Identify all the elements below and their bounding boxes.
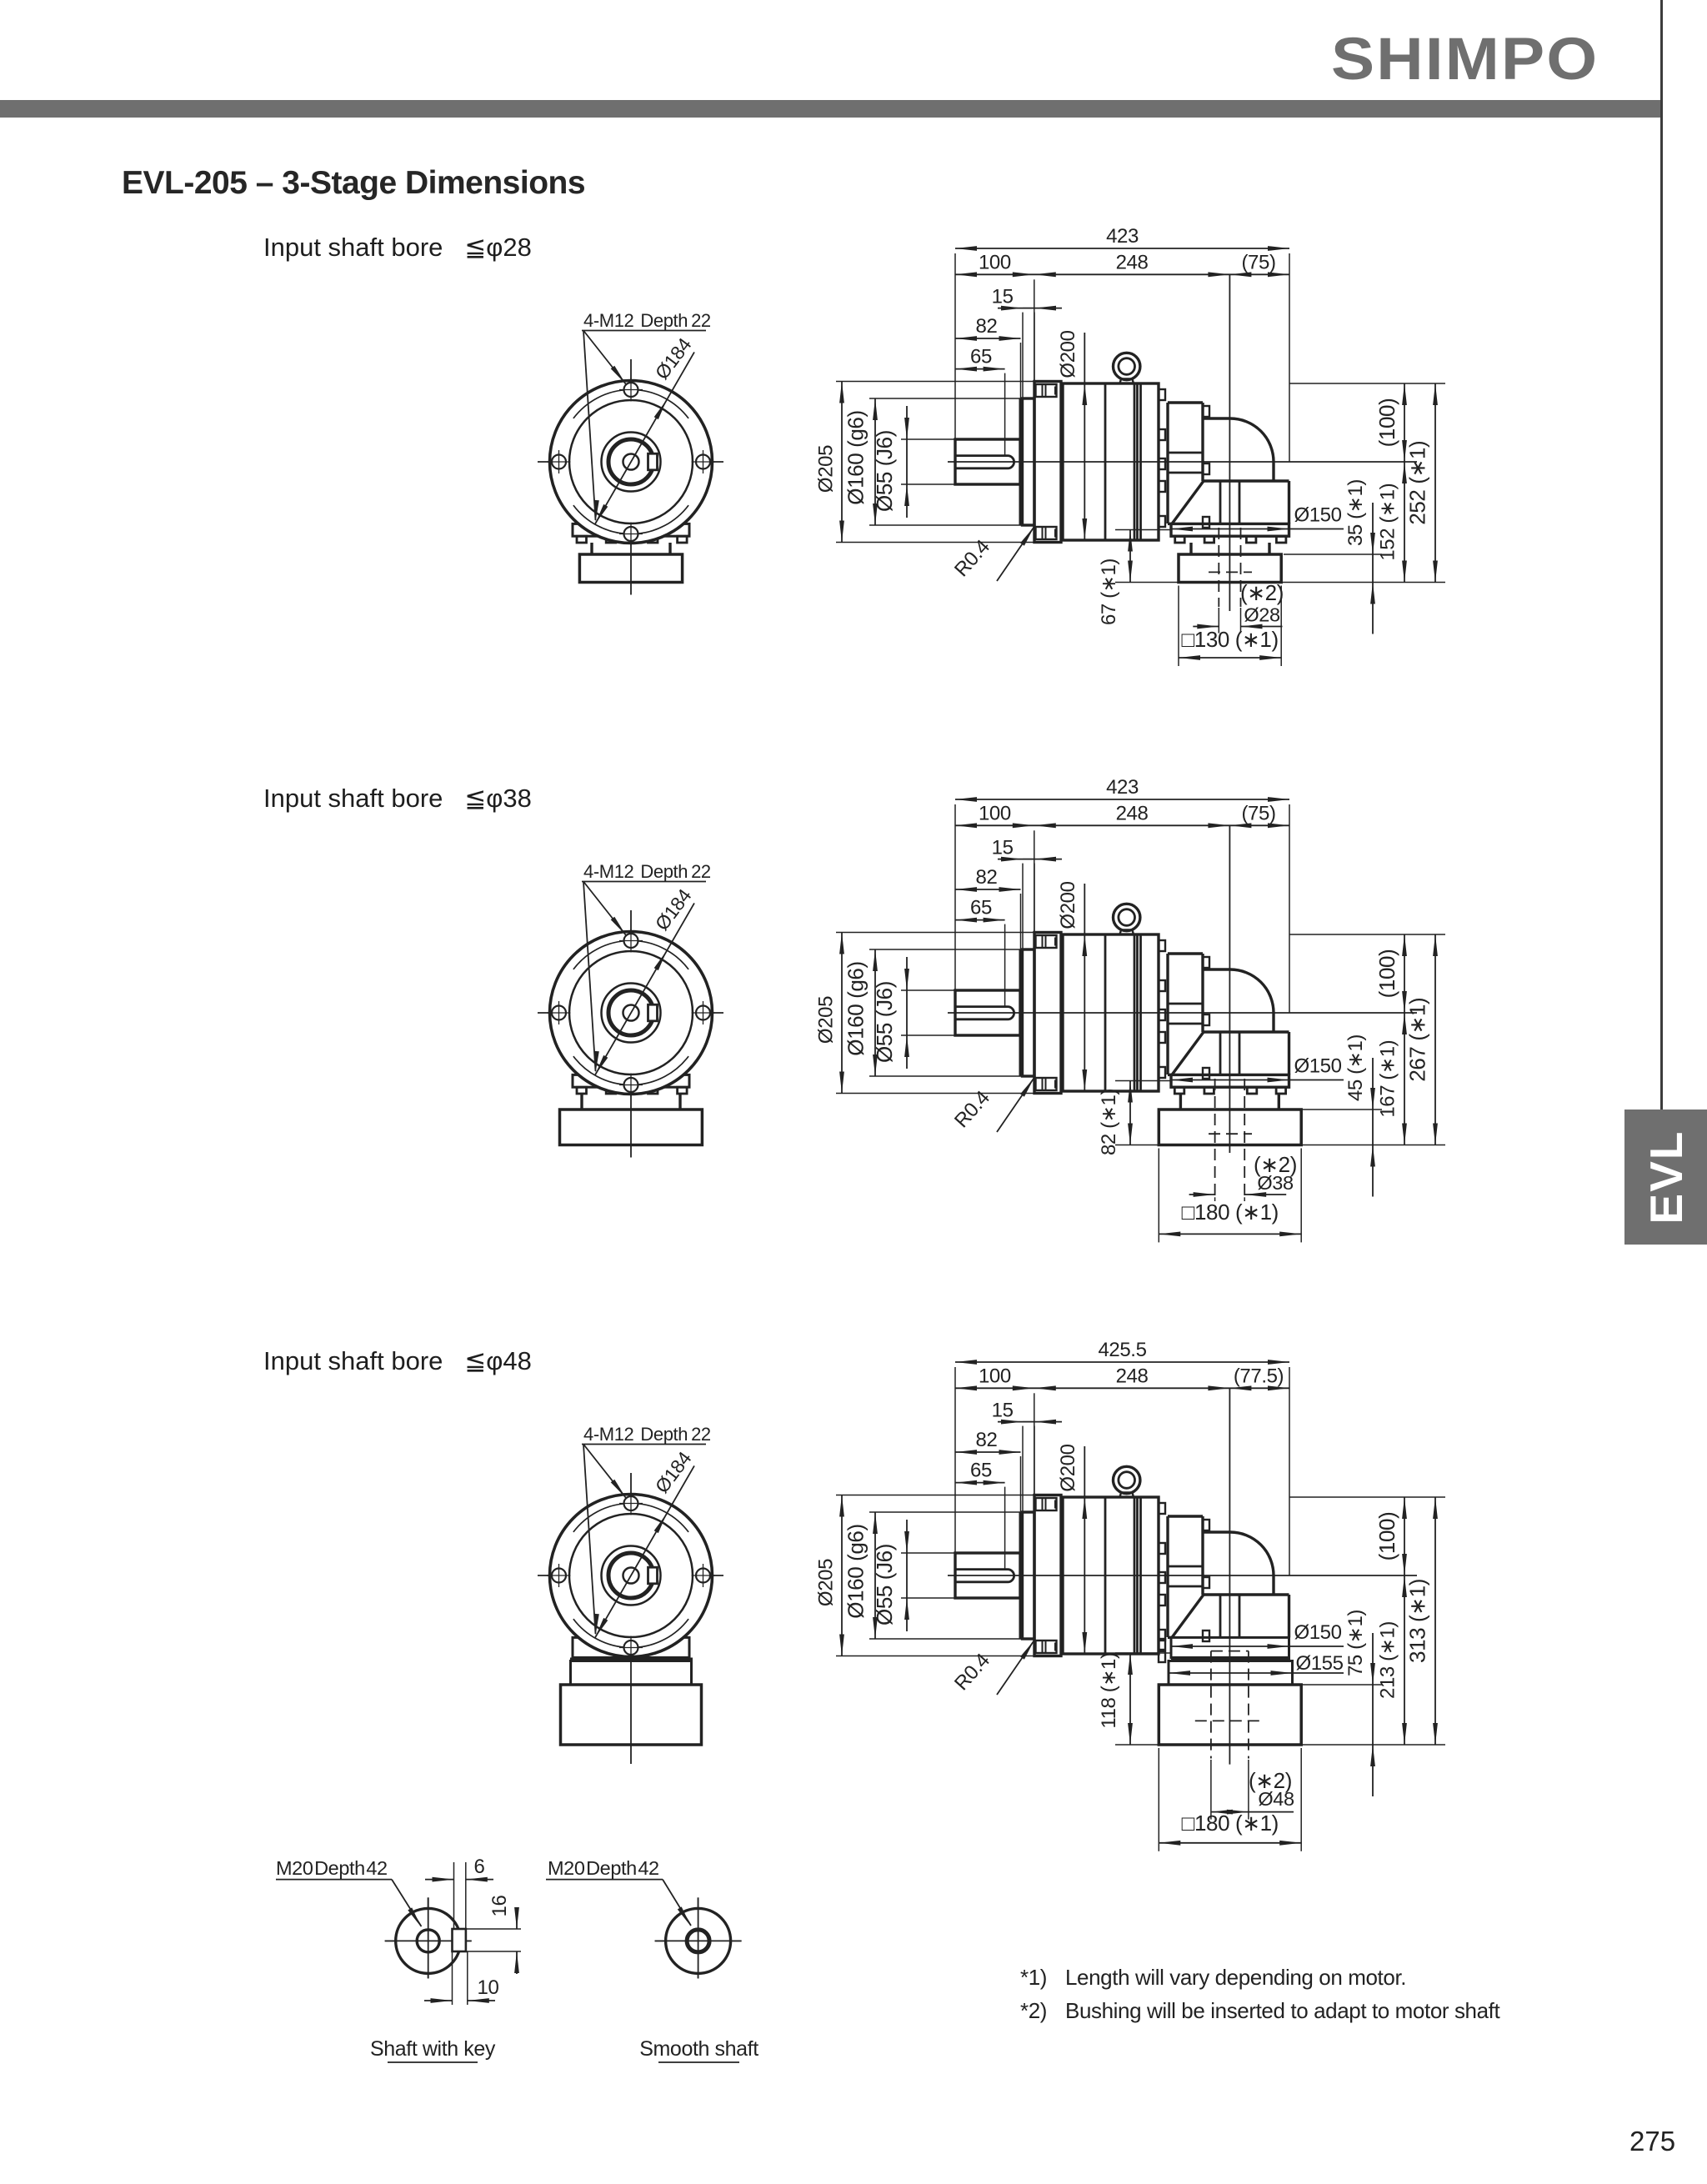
svg-text:248: 248 <box>1116 251 1149 273</box>
svg-text:Bushing will be inserted to ad: Bushing will be inserted to adapt to mot… <box>1065 1998 1501 2023</box>
svg-text:Ø205: Ø205 <box>815 996 838 1044</box>
svg-text:M20 Depth 42: M20 Depth 42 <box>548 1857 659 1879</box>
svg-text:Ø160 (g6): Ø160 (g6) <box>843 961 869 1055</box>
svg-text:Smooth shaft: Smooth shaft <box>639 2037 758 2061</box>
svg-text:4-M12 Depth 22: 4-M12 Depth 22 <box>583 861 711 882</box>
svg-text:15: 15 <box>992 837 1014 859</box>
svg-text:□130 (∗1): □130 (∗1) <box>1181 627 1278 652</box>
svg-text:118 (∗1): 118 (∗1) <box>1098 1652 1120 1728</box>
svg-text:□180 (∗1): □180 (∗1) <box>1182 1200 1279 1225</box>
svg-text:313 (∗1): 313 (∗1) <box>1405 1579 1430 1663</box>
svg-text:267 (∗1): 267 (∗1) <box>1405 998 1430 1082</box>
svg-text:65: 65 <box>970 897 992 919</box>
svg-text:100: 100 <box>979 251 1011 273</box>
svg-text:82: 82 <box>976 315 998 338</box>
svg-text:Ø150: Ø150 <box>1294 1055 1341 1078</box>
svg-text:82: 82 <box>976 866 998 889</box>
svg-text:16: 16 <box>488 1896 511 1917</box>
svg-text:Shaft with key: Shaft with key <box>370 2037 496 2061</box>
svg-text:167 (∗1): 167 (∗1) <box>1377 1040 1399 1118</box>
svg-text:Ø200: Ø200 <box>1057 1444 1079 1491</box>
svg-text:(∗2): (∗2) <box>1240 580 1284 605</box>
svg-text:100: 100 <box>979 802 1011 824</box>
svg-text:Ø205: Ø205 <box>815 1559 838 1606</box>
svg-text:67 (∗1): 67 (∗1) <box>1098 559 1120 625</box>
svg-text:45 (∗1): 45 (∗1) <box>1344 1034 1367 1101</box>
svg-text:100: 100 <box>979 1365 1011 1387</box>
svg-text:75 (∗1): 75 (∗1) <box>1344 1610 1367 1676</box>
svg-text:*1): *1) <box>1020 1965 1047 1990</box>
svg-text:Ø160 (g6): Ø160 (g6) <box>843 410 869 504</box>
svg-text:10: 10 <box>478 1976 499 1999</box>
svg-text:15: 15 <box>992 1400 1014 1422</box>
svg-text:82: 82 <box>976 1429 998 1451</box>
svg-text:□180 (∗1): □180 (∗1) <box>1182 1811 1279 1836</box>
svg-text:Ø48: Ø48 <box>1258 1788 1294 1810</box>
svg-text:82 (∗1): 82 (∗1) <box>1098 1089 1120 1155</box>
svg-text:4-M12 Depth 22: 4-M12 Depth 22 <box>583 1424 711 1445</box>
svg-text:Ø55 (J6): Ø55 (J6) <box>872 1544 897 1625</box>
svg-text:Ø200: Ø200 <box>1057 881 1079 929</box>
svg-text:152 (∗1): 152 (∗1) <box>1377 483 1399 561</box>
svg-text:Ø184: Ø184 <box>651 1447 696 1497</box>
svg-text:4-M12 Depth 22: 4-M12 Depth 22 <box>583 310 711 331</box>
svg-text:Length will vary depending on: Length will vary depending on motor. <box>1065 1965 1406 1990</box>
svg-text:65: 65 <box>970 1460 992 1482</box>
svg-text:248: 248 <box>1116 802 1149 824</box>
svg-text:Ø184: Ø184 <box>651 333 696 383</box>
svg-text:(75): (75) <box>1241 802 1275 824</box>
svg-text:6: 6 <box>474 1856 485 1878</box>
svg-text:Ø184: Ø184 <box>651 884 696 934</box>
svg-text:Ø155: Ø155 <box>1295 1652 1343 1675</box>
svg-text:423: 423 <box>1106 776 1139 799</box>
svg-text:425.5: 425.5 <box>1098 1339 1146 1361</box>
svg-text:Ø150: Ø150 <box>1294 1621 1341 1644</box>
svg-text:248: 248 <box>1116 1365 1149 1387</box>
svg-text:252 (∗1): 252 (∗1) <box>1405 441 1430 525</box>
svg-text:(100): (100) <box>1374 1512 1399 1561</box>
svg-text:65: 65 <box>970 346 992 368</box>
svg-text:Ø55 (J6): Ø55 (J6) <box>872 430 897 512</box>
svg-text:*2): *2) <box>1020 1998 1047 2023</box>
svg-text:Ø200: Ø200 <box>1057 330 1079 378</box>
svg-text:35 (∗1): 35 (∗1) <box>1344 479 1367 546</box>
svg-text:Ø28: Ø28 <box>1244 604 1280 626</box>
svg-text:Ø160 (g6): Ø160 (g6) <box>843 1524 869 1618</box>
svg-text:Ø38: Ø38 <box>1257 1172 1294 1194</box>
svg-text:15: 15 <box>992 286 1014 308</box>
svg-text:(75): (75) <box>1241 251 1275 273</box>
svg-text:Ø150: Ø150 <box>1294 504 1341 527</box>
svg-text:Ø205: Ø205 <box>815 445 838 493</box>
svg-text:Ø55 (J6): Ø55 (J6) <box>872 981 897 1063</box>
svg-text:(100): (100) <box>1374 949 1399 999</box>
svg-text:(77.5): (77.5) <box>1234 1365 1284 1387</box>
svg-text:(100): (100) <box>1374 398 1399 448</box>
svg-text:M20 Depth 42: M20 Depth 42 <box>276 1857 388 1879</box>
svg-text:213 (∗1): 213 (∗1) <box>1377 1621 1399 1699</box>
svg-text:423: 423 <box>1106 225 1139 248</box>
